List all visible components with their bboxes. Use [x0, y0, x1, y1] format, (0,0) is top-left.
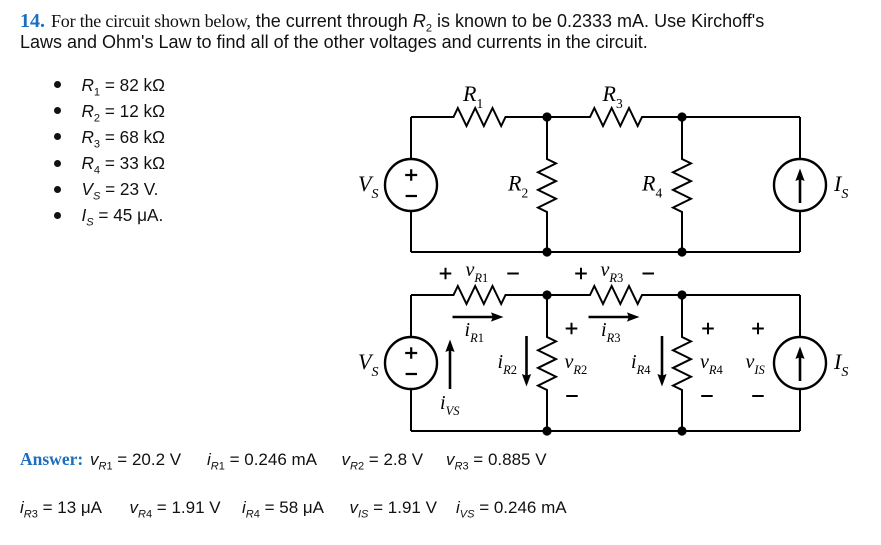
svg-text:IS: IS	[833, 349, 848, 380]
svg-text:VS: VS	[358, 349, 378, 380]
svg-text:vR2: vR2	[565, 351, 588, 377]
svg-text:IS: IS	[833, 171, 848, 202]
svg-text:vR4: vR4	[700, 351, 724, 377]
svg-text:R2: R2	[507, 171, 528, 201]
svg-text:iR2: iR2	[498, 351, 517, 377]
svg-text:R4: R4	[641, 171, 662, 201]
svg-text:iVS: iVS	[440, 392, 460, 418]
svg-text:iR3: iR3	[601, 319, 620, 345]
svg-text:iR4: iR4	[631, 351, 651, 377]
svg-text:vIS: vIS	[746, 351, 766, 377]
svg-text:VS: VS	[358, 171, 378, 202]
svg-text:iR1: iR1	[465, 319, 484, 345]
svg-text:vR1: vR1	[466, 259, 489, 285]
svg-text:vR3: vR3	[601, 259, 624, 285]
svg-text:R1: R1	[462, 81, 483, 111]
svg-text:R3: R3	[602, 81, 623, 111]
